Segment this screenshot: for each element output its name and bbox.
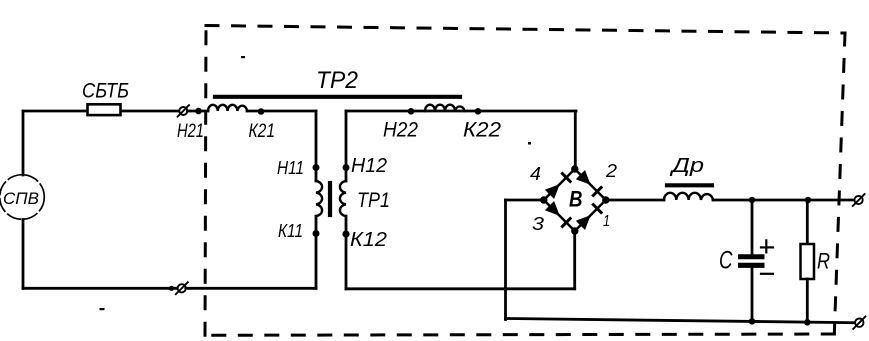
svg-text:Н11: Н11 [277,158,304,178]
svg-text:Н12: Н12 [351,155,387,177]
svg-text:К22: К22 [463,119,501,142]
svg-text:ТР1: ТР1 [357,189,390,212]
svg-text:СБТБ: СБТБ [82,79,129,103]
svg-text:2: 2 [605,161,617,181]
svg-text:R: R [817,249,830,274]
svg-text:3: 3 [532,214,544,234]
svg-text:В: В [569,187,583,212]
svg-text:К11: К11 [278,220,303,241]
svg-text:Н22: Н22 [383,119,418,142]
svg-text:Др: Др [669,155,704,177]
svg-text:С: С [719,247,733,275]
svg-text:СПВ: СПВ [3,189,39,208]
svg-text:К21: К21 [249,121,276,142]
svg-text:ТР2: ТР2 [316,67,358,94]
svg-text:1: 1 [603,213,610,230]
svg-text:4: 4 [530,164,541,184]
svg-text:Н21: Н21 [177,121,204,142]
svg-text:К12: К12 [350,229,387,251]
